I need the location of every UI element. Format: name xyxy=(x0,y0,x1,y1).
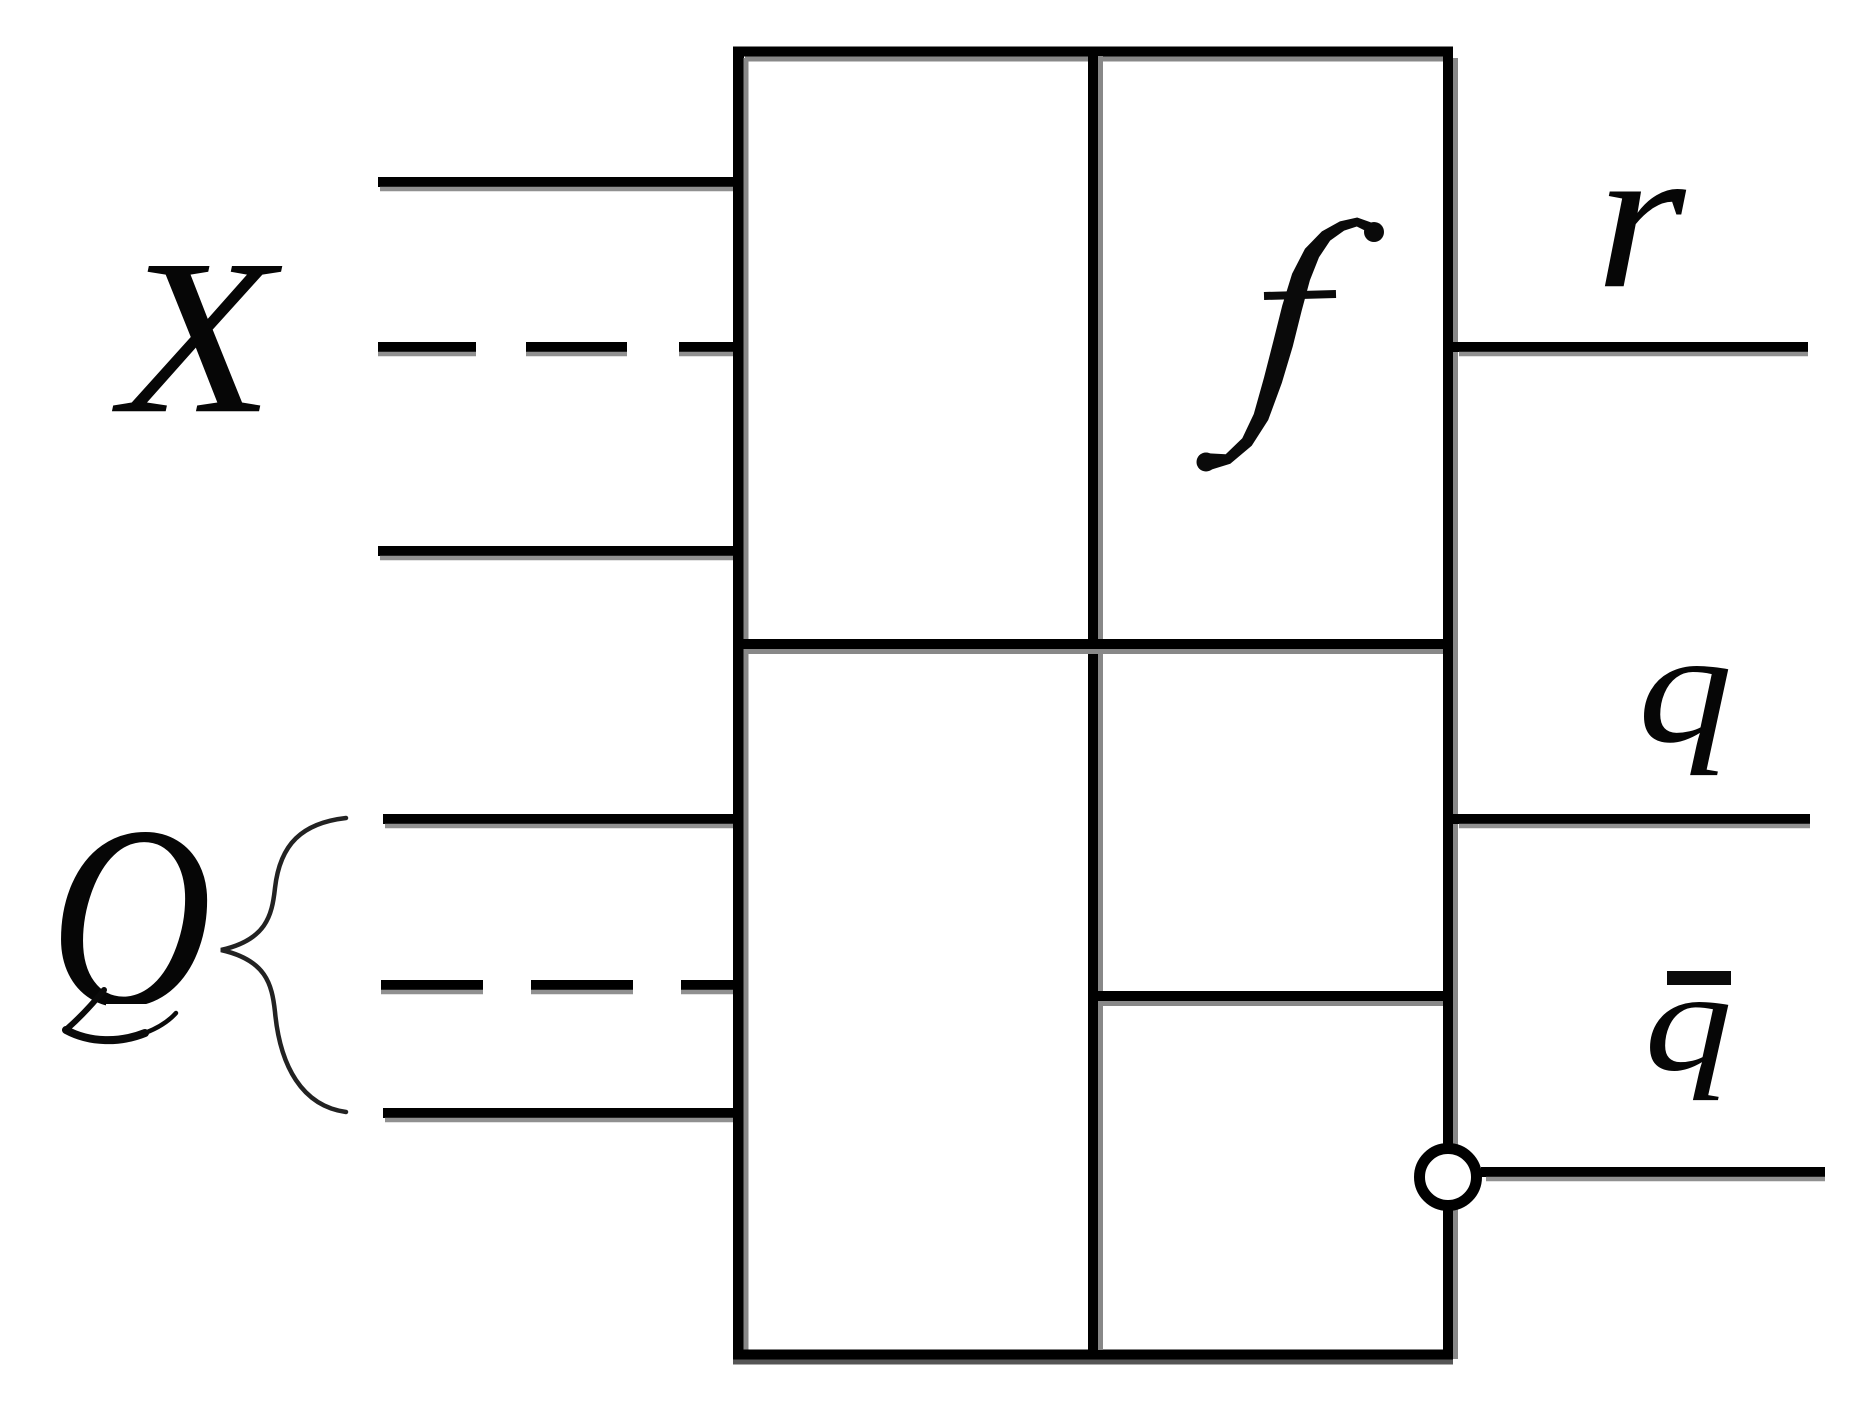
output wire q-bar xyxy=(1481,1172,1825,1179)
label Q xyxy=(49,773,212,1062)
svg-text:q: q xyxy=(1644,942,1732,1101)
svg-text:X: X xyxy=(112,215,283,460)
internal horizontal divider (right half) xyxy=(1088,996,1453,1004)
input wire X1 (top solid) xyxy=(378,182,740,189)
internal horizontal divider (full width) xyxy=(733,644,1453,652)
block outline right edge xyxy=(1448,47,1456,1359)
input wire Q1 (top solid) xyxy=(383,819,740,826)
block outline bottom edge xyxy=(733,1355,1453,1363)
block outline top edge xyxy=(733,52,1453,60)
brace for Q bus xyxy=(221,818,346,1112)
svg-text:q: q xyxy=(1638,599,1733,775)
output wire r xyxy=(1453,347,1808,354)
output wire q xyxy=(1453,819,1810,826)
label q-bar xyxy=(1644,942,1732,1101)
internal vertical divider xyxy=(1093,47,1101,1359)
block outline left edge xyxy=(739,47,747,1359)
input wire Q3 (bottom solid) xyxy=(383,1113,740,1120)
label f (transition function) xyxy=(1197,218,1385,472)
input wire X3 (bottom solid) xyxy=(378,551,740,558)
inversion bubble on q-bar output xyxy=(1420,1149,1477,1206)
input wire X2 (dashed) xyxy=(378,347,740,354)
input wire Q2 (dashed) xyxy=(381,985,740,992)
svg-text:r: r xyxy=(1596,104,1687,332)
